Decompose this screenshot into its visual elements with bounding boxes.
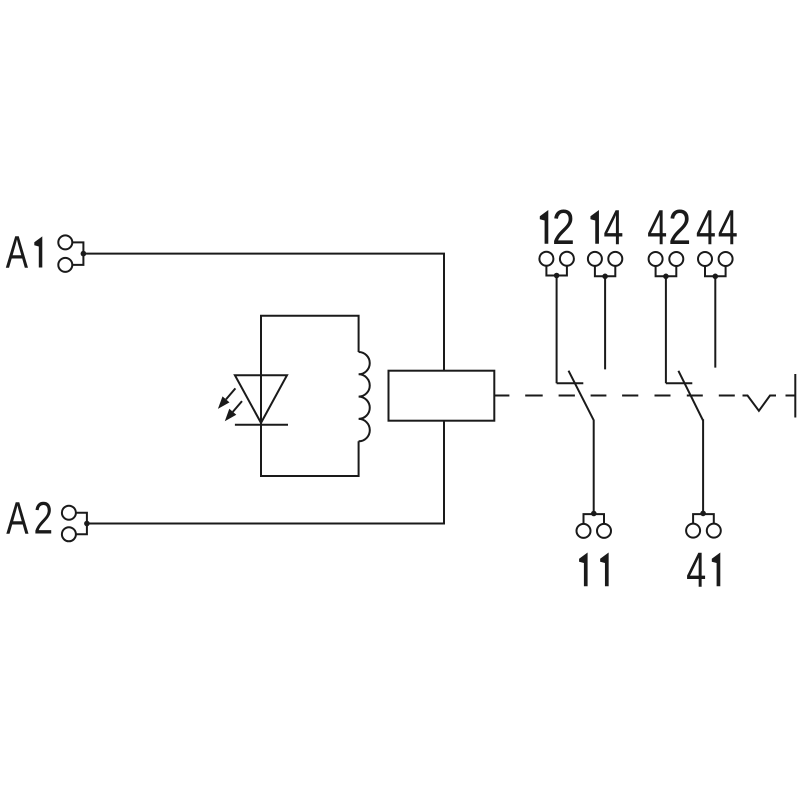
wire 14 fixed contact bbox=[604, 276, 606, 369]
wire 12 to contact bbox=[556, 276, 558, 383]
svg-text:2: 2 bbox=[552, 199, 575, 254]
contact 2 moving arm bbox=[678, 371, 703, 514]
terminal 41 bbox=[686, 511, 721, 538]
LED loop wire bbox=[261, 316, 359, 476]
wire coil box to A2 bbox=[87, 421, 444, 524]
svg-text:4: 4 bbox=[686, 543, 706, 598]
label A1 bbox=[6, 228, 43, 278]
wire 42 to contact bbox=[665, 276, 667, 383]
terminal 44 bbox=[698, 252, 733, 279]
label 41 bbox=[686, 543, 720, 598]
label 12 bbox=[540, 199, 575, 254]
armature end bar bbox=[794, 374, 796, 418]
mechanical linkage end dash bbox=[786, 395, 796, 397]
svg-text:4: 4 bbox=[696, 200, 716, 255]
terminal 14 bbox=[588, 252, 622, 279]
svg-text:A: A bbox=[6, 494, 29, 544]
svg-text:4: 4 bbox=[718, 200, 738, 255]
coil L1 bbox=[359, 352, 370, 441]
label 11 bbox=[579, 553, 609, 587]
terminal A2 bbox=[62, 506, 90, 542]
svg-text:2: 2 bbox=[668, 199, 691, 254]
terminal 42 bbox=[649, 252, 684, 279]
label 44 bbox=[696, 200, 738, 255]
LED light arrow 2 bbox=[225, 401, 242, 421]
LED D1 bbox=[235, 316, 288, 476]
LED light arrow 1 bbox=[218, 388, 236, 409]
contact 1 moving arm bbox=[569, 371, 594, 514]
svg-text:2: 2 bbox=[34, 492, 53, 544]
terminal A1 bbox=[58, 235, 86, 272]
contact 2 fixed bar (NC 42) bbox=[666, 382, 692, 384]
svg-text:4: 4 bbox=[647, 200, 667, 255]
terminal 12 bbox=[539, 252, 574, 279]
wire A1 to coil box bbox=[83, 254, 444, 371]
label 42 bbox=[647, 199, 691, 255]
terminal 11 bbox=[577, 511, 612, 538]
wire 44 fixed contact bbox=[714, 276, 716, 367]
mechanical linkage dashed line bbox=[494, 395, 735, 397]
svg-text:4: 4 bbox=[604, 200, 624, 255]
relay coil box K1 bbox=[389, 371, 495, 421]
svg-text:A: A bbox=[6, 228, 29, 278]
label 14 bbox=[590, 200, 623, 255]
mechanical linkage V notch bbox=[743, 396, 777, 411]
label A2 bbox=[6, 492, 53, 544]
contact 1 fixed bar (NC 12) bbox=[557, 382, 584, 384]
